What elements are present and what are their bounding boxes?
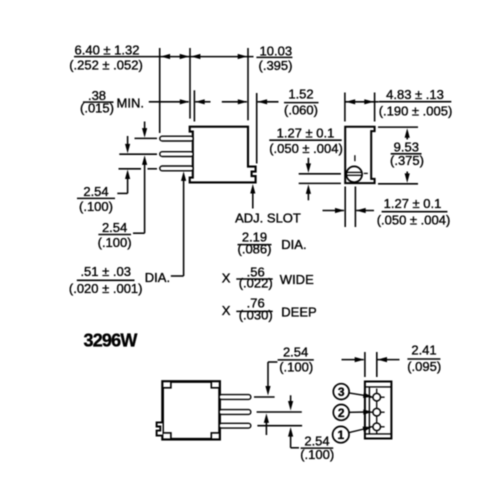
- leader from 1: [349, 429, 367, 433]
- extension line screw-center below: [354, 187, 356, 228]
- arrowhead 9.53 up: [405, 128, 410, 138]
- svg-text:(.252 ± .052): (.252 ± .052): [69, 57, 143, 72]
- arrowhead 1.52 right-pointing: [238, 99, 248, 104]
- arrowhead 9.53 down: [405, 173, 410, 183]
- hole 2 crosshair: [369, 411, 384, 413]
- svg-text:WIDE: WIDE: [280, 272, 314, 287]
- pin 1 centerline dash back: [254, 396, 275, 398]
- circle number 3: [333, 384, 349, 400]
- pin 2 back view: [219, 410, 251, 415]
- leader line DIA vertical: [183, 181, 185, 277]
- arrowhead 6.40 left: [161, 54, 171, 59]
- pin 3 back view: [219, 423, 251, 428]
- arrow 1.27 down tail: [307, 158, 309, 164]
- fraction bar 2.41: [407, 358, 440, 360]
- arrow pin2-pin3 lower tail: [127, 179, 129, 194]
- svg-text:(.375): (.375): [390, 153, 424, 168]
- fraction bar 1.27 top: [269, 139, 341, 141]
- extension line (body right edge): [247, 48, 249, 120]
- svg-text:(.095): (.095): [407, 359, 441, 374]
- svg-text:DIA.: DIA.: [281, 237, 306, 252]
- svg-text:10.03: 10.03: [260, 44, 293, 59]
- extension line 2.41 right: [376, 352, 378, 377]
- svg-text:2.54: 2.54: [102, 220, 127, 235]
- arrowhead ADJ SLOT: [250, 184, 255, 194]
- svg-text:6.40 ± 1.32: 6.40 ± 1.32: [75, 42, 140, 57]
- svg-text:.51 ± .03: .51 ± .03: [80, 264, 131, 279]
- extension line 4.83 right: [374, 93, 376, 122]
- fraction bar 2.54 lower: [98, 234, 131, 236]
- arrow 1.27 up tail: [307, 194, 309, 201]
- arrowhead at pin2 back from above: [288, 401, 293, 411]
- arrowhead .38 right-pointing: [180, 99, 190, 104]
- arrow down tail top 2.54: [267, 362, 269, 386]
- svg-text:4.83 ± .13: 4.83 ± .13: [386, 87, 444, 102]
- connector inner left line: [368, 387, 370, 434]
- svg-text:3: 3: [338, 385, 345, 399]
- svg-text:(.020 ± .001): (.020 ± .001): [69, 281, 143, 296]
- dimension tail 4.83: [375, 101, 379, 103]
- trimmer body side view outline: [190, 127, 256, 183]
- slot offset line lower: [299, 182, 341, 184]
- arrowhead 1.52 left-pointing: [258, 99, 268, 104]
- standoff tab back view: [157, 422, 163, 435]
- stub 9.53 up: [406, 137, 408, 140]
- screw centerline vertical dash: [354, 155, 356, 161]
- arrow tail above pin2 right: [290, 395, 292, 401]
- leader arrowhead 1: [363, 427, 373, 432]
- svg-text:1.27 ± 0.1: 1.27 ± 0.1: [384, 196, 442, 211]
- svg-text:DIA.: DIA.: [145, 270, 170, 285]
- svg-text:(.060): (.060): [284, 102, 318, 117]
- leader elbow top 2.54: [268, 361, 277, 363]
- corner foot top-right: [211, 382, 219, 388]
- corner foot bottom-left: [163, 433, 171, 439]
- pin 3 centerline back: [257, 425, 302, 427]
- arrowhead 4.83 left: [346, 99, 356, 104]
- svg-text:2.41: 2.41: [411, 342, 436, 357]
- pin 3 (side view bottom): [160, 166, 193, 171]
- dimension line 1.52 left tail: [222, 101, 247, 103]
- adjustment screw circle: [346, 166, 362, 182]
- arrowhead at pin2 back from below: [264, 413, 269, 423]
- pin 1 back view: [219, 395, 251, 400]
- fraction bar 4.83: [379, 101, 451, 103]
- dimension tail 1.27 bottom: [356, 210, 374, 212]
- svg-text:(.100): (.100): [279, 359, 313, 374]
- fraction bar .38: [83, 101, 114, 103]
- leader from 3: [349, 393, 366, 396]
- arrowhead 4.83 right: [364, 99, 374, 104]
- arrowhead 2.41 left-pointing: [378, 357, 388, 362]
- pin 2 (side view middle): [160, 152, 193, 157]
- svg-text:(.100): (.100): [98, 235, 132, 250]
- corner foot bottom-right: [211, 433, 219, 439]
- dimension line 6.40 / 10.03 with fraction bar: [74, 56, 254, 58]
- svg-text:(.015): (.015): [80, 100, 114, 115]
- pin 3 centerline right: [148, 168, 158, 170]
- arrowhead 6.40 right: [180, 54, 190, 59]
- svg-text:X: X: [222, 303, 231, 318]
- svg-text:MIN.: MIN.: [117, 96, 144, 111]
- screw slot upper line: [347, 171, 362, 173]
- screw centerline horizontal dash: [364, 172, 368, 174]
- arrow pin1-pin2 lower tail: [144, 164, 146, 233]
- arrow tail below pin3 back: [290, 436, 292, 448]
- arrowhead 1.27 bottom right-pointing: [335, 208, 345, 213]
- dimension line 1.27 bottom left part: [323, 210, 345, 212]
- svg-text:(.100): (.100): [79, 199, 113, 214]
- arrowhead 1.27 bottom left-pointing: [356, 208, 366, 213]
- circle number 1: [333, 426, 349, 442]
- connector inner top line: [366, 386, 392, 388]
- svg-text:2: 2: [338, 406, 345, 420]
- extension line 4.83 left: [344, 93, 346, 122]
- extension line (tab right edge): [256, 93, 258, 164]
- leader elbow bottom 2.54: [291, 447, 299, 449]
- dimension line 4.83: [345, 101, 374, 103]
- svg-text:(.190 ± .005): (.190 ± .005): [379, 103, 453, 118]
- corner foot top-left: [163, 382, 171, 388]
- svg-text:(.086): (.086): [238, 242, 272, 257]
- fraction bar back bottom: [301, 447, 334, 449]
- arrow tail below pin2 back: [265, 422, 267, 435]
- fraction bar 1.52: [284, 102, 319, 104]
- hole centerline vertical: [376, 389, 378, 434]
- svg-text:3296W: 3296W: [84, 331, 138, 351]
- stub 9.53 down: [406, 172, 408, 175]
- fraction bar 2.19: [238, 244, 272, 246]
- extension line 9.53 top: [378, 126, 418, 128]
- pin 2 centerline back: [257, 411, 302, 413]
- leader arrowhead 3: [363, 393, 373, 398]
- trimmer body top view outline: [345, 127, 374, 183]
- svg-text:(.050 ± .004): (.050 ± .004): [269, 141, 343, 156]
- fraction bar 9.53: [391, 153, 422, 155]
- leader from 2: [349, 411, 366, 413]
- arrowhead .38 left-pointing: [195, 99, 205, 104]
- dimension line .38 MIN left part: [149, 101, 189, 103]
- arrowhead 1.27 down: [306, 163, 311, 173]
- dimension tail right of 1.52: [258, 101, 279, 103]
- dimension line 2.41 left part: [342, 359, 364, 361]
- svg-text:1.27 ± 0.1: 1.27 ± 0.1: [277, 126, 335, 141]
- pin hole 3: [373, 393, 381, 401]
- leader arrowhead 2: [363, 409, 373, 414]
- svg-text:1.52: 1.52: [288, 87, 313, 102]
- extension line 2.41 left: [364, 352, 366, 377]
- svg-text:2.54: 2.54: [283, 344, 308, 359]
- pin hole 2: [373, 408, 381, 416]
- arrowhead 10.03 left: [191, 54, 201, 59]
- arrowhead at pin2 line from below: [142, 155, 147, 165]
- slot offset line upper: [299, 173, 341, 175]
- connector inner bottom line: [366, 433, 392, 435]
- leader line ADJ SLOT: [252, 193, 254, 209]
- leader elbow to upper 2.54 label: [117, 192, 127, 194]
- pin hole 1: [373, 423, 381, 431]
- fraction bar 2.54 upper: [77, 197, 115, 199]
- fraction bar .56: [236, 278, 272, 280]
- svg-text:2.54: 2.54: [83, 184, 108, 199]
- svg-text:1: 1: [337, 428, 344, 442]
- screw slot lower line: [346, 174, 362, 176]
- extension tick (recessed face): [193, 90, 195, 121]
- fraction bar .76: [236, 310, 272, 312]
- trimmer body back view outline: [163, 382, 220, 440]
- svg-text:DEEP: DEEP: [281, 304, 316, 319]
- hole 3 crosshair: [369, 396, 384, 398]
- arrow pin2-pin3 upper tail: [127, 136, 129, 145]
- pin 1 centerline dash: [135, 137, 158, 139]
- arrowhead at pin1 back: [265, 386, 270, 396]
- arrowhead 10.03 right: [238, 54, 248, 59]
- fraction bar back top: [278, 359, 314, 361]
- arrow pin1-pin2 upper tail: [144, 122, 146, 130]
- svg-text:(.100): (.100): [300, 447, 334, 462]
- extension line 9.53 bottom: [378, 183, 418, 185]
- connector body outline: [365, 382, 392, 439]
- leader arrowhead to pin diameter: [181, 171, 186, 181]
- extension line body-left below: [344, 187, 346, 228]
- arrowhead 1.27 up: [306, 184, 311, 194]
- extension line (pin tips): [159, 48, 161, 133]
- arrowhead at pin3 back from below: [288, 427, 293, 437]
- svg-text:(.050 ± .004): (.050 ± .004): [377, 212, 451, 227]
- arrowhead at pin3 line from below: [125, 170, 130, 180]
- fraction bar 1.27 bottom: [382, 211, 448, 213]
- dimension tail right of .38: [195, 101, 210, 103]
- leader elbow DIA: [171, 275, 184, 277]
- svg-text:(.022): (.022): [239, 275, 273, 290]
- extension line (body left face): [189, 48, 191, 119]
- dimension tail 2.41: [378, 359, 400, 361]
- svg-text:(.395): (.395): [259, 58, 293, 73]
- svg-text:X: X: [222, 271, 231, 286]
- pin 3 centerline left: [119, 168, 142, 170]
- fraction bar 10.03: [256, 56, 292, 58]
- hole 1 crosshair: [369, 426, 384, 428]
- svg-text:(.030): (.030): [239, 308, 273, 323]
- fraction bar .51: [77, 279, 135, 281]
- leader elbow to lower 2.54 label: [133, 232, 145, 234]
- arrowhead at pin1 line: [142, 128, 147, 138]
- arrowhead at pin2 line from above: [125, 144, 130, 154]
- svg-text:ADJ. SLOT: ADJ. SLOT: [235, 210, 301, 225]
- pin 1 (side view top): [160, 136, 193, 141]
- pin 2 centerline: [119, 153, 157, 155]
- arrowhead 2.41 right-pointing: [355, 357, 365, 362]
- circle number 2: [333, 405, 349, 421]
